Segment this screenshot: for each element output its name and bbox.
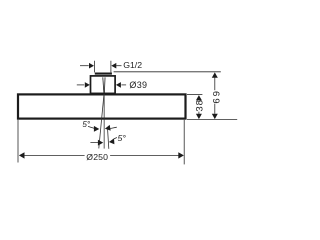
dim 69 arrow bottom	[212, 114, 218, 119]
svg-text:Ø250: Ø250	[86, 152, 108, 162]
spray line right 5deg	[108, 128, 109, 149]
svg-text:Ø39: Ø39	[129, 80, 147, 90]
svg-text:5°: 5°	[118, 133, 127, 143]
tail lower left	[90, 142, 98, 144]
G1/2 arrow right	[111, 63, 116, 69]
O39 arrow right	[116, 82, 121, 88]
angle arrow upper left	[94, 126, 99, 132]
O250 arrow left	[19, 152, 25, 158]
angle arrow lower left	[98, 140, 103, 146]
O250 dim line right part	[110, 154, 179, 156]
O39 dim tail left	[77, 84, 84, 86]
angle arrow lower right	[109, 138, 115, 144]
tail upper right	[110, 127, 117, 128]
svg-text:G1/2: G1/2	[123, 60, 142, 70]
svg-text:5°: 5°	[82, 120, 91, 129]
thread collar bar G1/2	[95, 73, 112, 75]
dim 38 arrow bottom	[196, 114, 202, 119]
svg-text:6: 6	[211, 98, 222, 103]
dim 69 line bottom seg	[214, 104, 216, 114]
O39 dim tail right	[121, 84, 126, 86]
ext line top for 69	[114, 71, 221, 73]
tail lower right	[114, 138, 117, 139]
O39 arrow left	[85, 82, 90, 88]
svg-text:8: 8	[194, 100, 205, 105]
spray centerline	[103, 94, 105, 149]
dim 38 line bottom seg	[198, 112, 200, 114]
leader upper left	[88, 126, 94, 128]
dim 69 arrow top	[212, 72, 218, 77]
G1/2 arrow left	[89, 63, 94, 69]
angle arrow upper right	[105, 125, 111, 131]
dim 69 line top seg	[214, 78, 216, 91]
svg-text:3: 3	[194, 106, 205, 111]
O250 dim line left part	[24, 154, 84, 156]
ext line top right for 38	[187, 94, 202, 96]
G1/2 extension line left	[94, 61, 96, 73]
ext line bottom right	[187, 118, 237, 120]
svg-text:9: 9	[211, 91, 222, 96]
connector nipple body	[91, 76, 116, 94]
G1/2 dim tail left	[80, 65, 89, 67]
spray line left 5deg	[99, 94, 104, 148]
G1/2 extension line right	[110, 61, 112, 73]
O250 extension line left	[17, 120, 19, 163]
O250 extension line right	[183, 120, 185, 165]
O250 arrow right	[178, 152, 184, 158]
spray needle in nipple	[103, 77, 104, 93]
dim 38 arrow top	[196, 95, 202, 100]
shower head body plate	[18, 94, 186, 118]
G1/2 dim tail right	[116, 65, 121, 67]
